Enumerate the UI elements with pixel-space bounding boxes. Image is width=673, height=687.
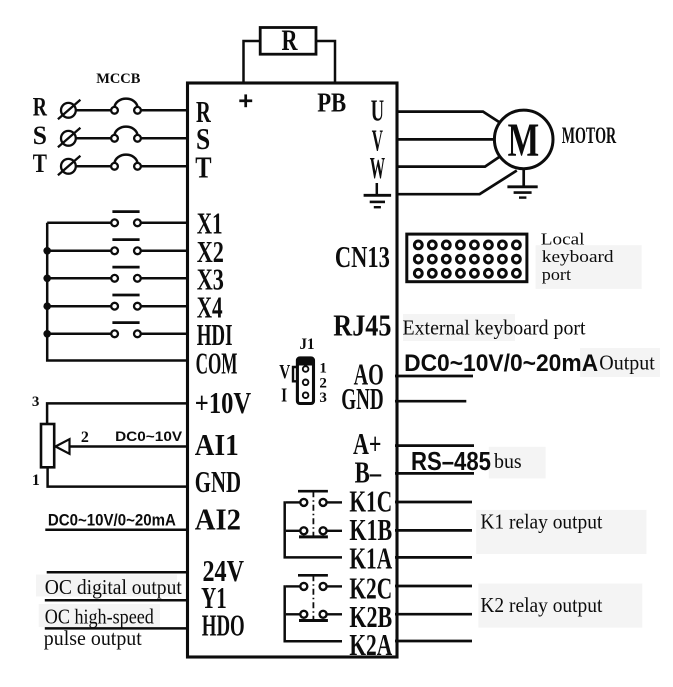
wire wiper to AI1 [70,445,190,448]
relay K1 contact NC bar [298,490,328,493]
switch contact X2 [111,247,118,254]
wire MCCB to pin T [141,165,189,168]
svg-text:RJ45: RJ45 [333,307,391,342]
connector CN13 body [407,234,527,282]
motor M1 circle [494,110,553,169]
wire bus to switch HDI [47,333,111,336]
svg-text:+10V: +10V [195,385,252,420]
wire K1 common to contact [286,501,301,503]
svg-text:K1 relay output: K1 relay output [480,510,602,534]
svg-text:Local: Local [541,229,585,248]
potentiometer wiper arrow [56,439,70,454]
svg-text:DC0~10V/0~20mA: DC0~10V/0~20mA [48,511,176,529]
MCCB pole contact R [111,107,118,114]
wire contact to K2B pin [326,613,342,615]
wire B- [395,472,474,475]
wire U to motor [397,112,500,123]
svg-text:MCCB: MCCB [96,71,140,87]
svg-text:DC0~10V: DC0~10V [115,428,183,444]
relay K2 contact NO bar [299,619,328,622]
svg-text:GND: GND [341,381,383,416]
switch contact X4 [111,303,118,310]
terminal symbol phase R [61,103,76,118]
wire K2 common to contact [286,585,301,587]
motor ground symbol [507,185,537,188]
wire K1A external [395,556,472,559]
wire +10V to potentiometer top [47,403,189,424]
switch contact HDI [111,330,118,337]
junction on bus at HDI [43,330,51,338]
svg-text:T: T [33,149,47,178]
svg-text:Output: Output [599,351,655,375]
wire AO [395,375,473,378]
wire switch to pin X4 [141,305,189,308]
svg-text:CN13: CN13 [335,239,390,274]
svg-text:I: I [281,384,287,406]
wire R terminal to MCCB pole [76,109,111,112]
svg-text:K2 relay output: K2 relay output [480,593,602,617]
relay K1 contact circles row B [300,527,307,534]
wire A+ [395,444,474,447]
svg-text:COM: COM [196,345,238,380]
wire S terminal to MCCB pole [76,137,111,140]
wire contact to K1B pin [326,530,342,532]
wire switch to pin X3 [141,277,189,280]
svg-text:M: M [508,114,539,167]
wire 24V [47,571,189,574]
wire pot bottom to GND [48,467,189,486]
wire K1C external [395,501,472,504]
terminal symbol phase T [61,159,76,174]
wire switch to pin X1 [141,222,189,225]
switch contact X1 [111,219,118,226]
label Local keyboard port [541,229,614,283]
MCCB pole contact S [111,135,118,142]
terminal + label [239,99,252,102]
inverter main box U1 [188,83,398,657]
relay K1 mechanical link dash-dot [312,491,314,536]
svg-text:1: 1 [319,361,327,377]
svg-text:GND: GND [195,464,241,499]
relay K2 contact NC bar [298,574,328,577]
motor ground stem wire [522,169,525,187]
inverter ground symbol [376,183,379,194]
wire PE to motor ground [397,171,517,195]
svg-text:S: S [33,121,47,150]
wire contact to K1C pin [326,501,342,503]
wire bus to switch X3 [47,277,111,280]
jumper J1 pin holes [303,366,309,398]
wire HDO [45,627,189,630]
wire T terminal to MCCB pole [76,165,111,168]
svg-text:MOTOR: MOTOR [562,123,617,148]
wire K2 common to contact B [286,613,301,615]
svg-text:keyboard: keyboard [542,247,614,266]
wire contact to K2C pin [326,585,342,587]
wire AI2 [45,528,189,531]
svg-text:DC0~10V/0~20mA: DC0~10V/0~20mA [404,350,598,377]
wire analog GND [395,400,466,403]
connector CN13 pin holes [414,241,520,277]
resistor R body [260,28,316,55]
wire bus to switch X1 [47,222,111,225]
wire V to motor [397,138,494,141]
junction on bus at X4 [43,302,51,310]
wire K2A external [395,640,472,643]
wire K1 common to contact B [286,530,301,532]
svg-text:R: R [282,24,298,57]
digital input common bus wire [47,223,189,361]
svg-text:bus: bus [494,449,522,473]
jumper J1 side tab [293,367,297,381]
wire K2B external [395,613,472,616]
svg-text:V: V [279,361,290,383]
relay K1 contact circles row C [300,499,307,506]
svg-text:3: 3 [319,390,327,406]
wire MCCB to pin R [141,109,189,112]
relay K2 contact circles row C [300,583,307,590]
wire switch to pin X2 [141,250,189,253]
svg-text:AI1: AI1 [195,427,239,462]
svg-text:J1: J1 [300,336,315,353]
wire bus to switch X2 [47,250,111,253]
switch contact X3 [111,275,118,282]
svg-text:W: W [370,150,385,185]
relay K2 mechanical link dash-dot [312,575,314,620]
svg-text:PB: PB [317,87,346,117]
jumper J1 cap filled section [297,358,313,366]
wire bus to switch X4 [47,305,111,308]
svg-text:AI2: AI2 [195,502,241,537]
svg-text:K2A: K2A [349,627,392,662]
wire switch to pin HDI [141,333,189,336]
wire K2 common bracket [285,585,342,641]
wire K2C external [395,585,472,588]
svg-text:RS–485: RS–485 [411,446,491,476]
relay K1 contact NO bar [299,535,328,538]
junction on bus at X2 [43,247,51,255]
terminal symbol phase S [61,131,76,146]
wire from resistor R to PB terminal [316,41,335,83]
jumper J1 body [297,358,313,404]
svg-text:OC digital output: OC digital output [45,575,182,599]
svg-text:3: 3 [32,394,40,410]
wire K1 common bracket [285,501,342,557]
wire Y1 [45,599,189,602]
svg-text:pulse output: pulse output [44,626,142,650]
junction on bus at X3 [43,275,51,283]
svg-text:R: R [33,93,47,122]
svg-text:port: port [542,265,571,284]
MCCB pole contact T [111,163,118,170]
wire W to motor [397,156,500,166]
svg-text:1: 1 [32,472,40,489]
svg-text:External keyboard port: External keyboard port [403,316,586,340]
svg-text:2: 2 [81,429,89,446]
potentiometer RP body [41,424,54,467]
svg-text:T: T [195,150,212,185]
relay K2 contact circles row B [300,611,307,618]
wire K1B external [395,529,472,532]
wire MCCB to pin S [141,137,189,140]
svg-text:HDO: HDO [202,608,245,643]
wire from + terminal to resistor R [244,41,261,83]
